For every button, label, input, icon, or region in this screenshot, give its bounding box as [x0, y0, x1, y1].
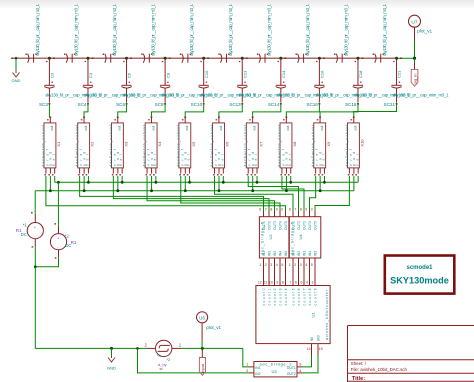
svg-text:7: 7 — [294, 208, 296, 212]
wire right pin X10 to rail A — [357, 176, 359, 182]
pin speckles cap 9 — [355, 61, 356, 62]
pin speckles cap 7 — [278, 61, 279, 62]
svg-text:SC3: SC3 — [39, 102, 48, 107]
svg-text:SKY130mode: SKY130mode — [390, 276, 449, 286]
svg-text:X8: X8 — [292, 141, 297, 147]
node top-left pin end — [11, 58, 13, 59]
node junction J5 — [202, 57, 205, 60]
capacitor shunt C8 — [160, 85, 170, 88]
source V1 (R1) — [34, 215, 36, 223]
capacitor C6 series — [218, 54, 229, 63]
svg-text:sky130_fd_pr__cap_mim_m3_1: sky130_fd_pr__cap_mim_m3_1 — [382, 3, 387, 56]
wire cap drop 9 — [357, 58, 359, 85]
svg-text:IN4: IN4 — [308, 251, 312, 256]
junction rail A col2 — [87, 181, 90, 184]
wire ctrl X8 to dac pin — [282, 176, 304, 211]
svg-text:out: out — [118, 126, 122, 131]
transistor-switch X2 dacSwitch_subckt box — [78, 123, 90, 168]
node junction J10 — [395, 57, 398, 60]
wire ctrl X2 to dac pin — [80, 176, 264, 211]
svg-text:C21: C21 — [397, 70, 402, 78]
ground GND bottom — [108, 356, 115, 363]
wire SC4 to switch X2 — [84, 104, 88, 117]
svg-text:*1: *1 — [23, 223, 28, 228]
junction rail A V2 tap — [57, 181, 60, 184]
wire cap drop 3 — [126, 58, 128, 85]
svg-text:6: 6 — [295, 281, 297, 285]
wire cap drop 8 — [318, 58, 320, 85]
wire SC8 to switch X4 — [151, 104, 165, 117]
svg-text:5: 5 — [300, 281, 302, 285]
wire U1 hi0 stub — [311, 344, 313, 356]
wire cap drop 10 — [396, 58, 398, 85]
wire V1 bottom — [34, 247, 36, 267]
svg-text:C10: C10 — [204, 70, 209, 78]
svg-text:X6: X6 — [225, 141, 230, 147]
wire right pin X5 to rail A — [189, 176, 191, 182]
svg-text:U4: U4 — [298, 234, 303, 240]
wire right pin X6 to rail A — [222, 176, 224, 182]
svg-text:input: input — [200, 363, 205, 373]
svg-text:OUT4: OUT4 — [279, 221, 283, 230]
svg-text:IN2: IN2 — [268, 251, 272, 256]
svg-text:3: 3 — [299, 363, 301, 367]
svg-text:IN5: IN5 — [284, 251, 288, 256]
pin speckles cap 1 — [46, 61, 47, 62]
transistor-switch X6 dacSwitch_subckt box — [213, 123, 225, 168]
svg-text:2: 2 — [145, 343, 148, 348]
svg-text:plot_v1: plot_v1 — [417, 29, 432, 34]
node scmode1 SKY130mode annotation — [385, 256, 455, 294]
svg-text:11: 11 — [264, 281, 268, 285]
svg-text:DC: DC — [65, 243, 71, 248]
svg-text:15: 15 — [319, 347, 323, 351]
svg-text:scmode1: scmode1 — [406, 265, 433, 271]
svg-text:2: 2 — [246, 369, 248, 373]
svg-text:9: 9 — [305, 208, 307, 212]
svg-text:9: 9 — [276, 281, 278, 285]
svg-text:sky130_fd_pr__cap_mim_m3_1: sky130_fd_pr__cap_mim_m3_1 — [112, 3, 117, 56]
junction bypass corner — [136, 347, 139, 350]
junction rail B col8 — [285, 189, 288, 192]
svg-text:hi0: hi0 — [310, 337, 314, 342]
svg-text:OUT1: OUT1 — [287, 366, 296, 370]
wire right pin X7 to rail A — [256, 176, 258, 182]
capacitor shunt C3 — [44, 85, 54, 88]
svg-text:sky130_fd_pr__cap_mim_m3_1: sky130_fd_pr__cap_mim_m3_1 — [228, 3, 233, 56]
svg-text:10: 10 — [279, 208, 283, 212]
pin speckles cap 2 — [85, 61, 86, 62]
svg-text:3: 3 — [270, 263, 272, 267]
wire ctrl X7 to dac pin — [248, 176, 298, 211]
pin 2 schmitt — [147, 347, 156, 349]
wire rail A to V2 — [57, 182, 59, 225]
wire SC18 to switch X9 — [320, 104, 358, 117]
transistor-switch X9 dacSwitch_subckt box — [314, 123, 326, 168]
wire top rail to plot node — [397, 57, 415, 59]
svg-text:out: out — [50, 126, 54, 131]
wire cap drop 4 — [164, 58, 166, 85]
wire cap drop 6 — [241, 58, 243, 85]
wire mid pin X9 to rail B — [319, 176, 321, 191]
source V2 (R1) — [58, 226, 60, 234]
svg-text:sig_in: sig_in — [412, 74, 417, 84]
ground GND top-left — [13, 71, 20, 78]
svg-text:-: - — [34, 234, 36, 238]
svg-text:1: 1 — [259, 263, 261, 267]
svg-text:SC13: SC13 — [229, 102, 241, 107]
node junction J2 — [86, 57, 89, 60]
transistor-switch X8 dacSwitch_subckt box — [280, 123, 292, 168]
junction rail A col6 — [222, 181, 225, 184]
svg-text:U7: U7 — [411, 19, 417, 25]
svg-text:X7: X7 — [258, 141, 263, 147]
svg-text:SC16: SC16 — [306, 102, 318, 107]
svg-text:14: 14 — [307, 347, 311, 351]
capacitor C7 series — [257, 54, 268, 63]
svg-text:SC14: SC14 — [268, 102, 280, 107]
svg-text:out: out — [219, 126, 223, 131]
junction rail B col9 — [319, 189, 322, 192]
wire mid pin X8 to rail B — [285, 176, 287, 191]
svg-text:OUT2: OUT2 — [268, 221, 272, 230]
wire clk0 to OUT2 — [302, 356, 318, 373]
wire SC6 to switch X3 — [118, 104, 127, 117]
svg-text:IN2: IN2 — [297, 251, 301, 256]
svg-text:out: out — [320, 126, 324, 131]
wire rail B to V1 — [34, 191, 36, 215]
wire cap drop 1 — [48, 58, 50, 85]
svg-text:OUT3: OUT3 — [273, 221, 277, 230]
svg-text:4: 4 — [276, 263, 278, 267]
wire mid pin X7 to rail B — [252, 176, 254, 191]
svg-text:IN1: IN1 — [292, 251, 296, 256]
wire rail A (to V2) — [55, 181, 358, 183]
svg-text:OUT1: OUT1 — [262, 221, 266, 230]
pin speckles cap 10 — [393, 61, 394, 62]
node junction J9 — [356, 57, 359, 60]
junction rail A col9 — [323, 181, 326, 184]
svg-text:+: + — [34, 225, 37, 229]
junction sources — [34, 265, 37, 268]
svg-text:U1: U1 — [311, 312, 316, 318]
wire top rail net — [12, 57, 397, 59]
svg-text:10: 10 — [309, 208, 313, 212]
transistor-switch X3 dacSwitch_subckt box — [111, 123, 123, 168]
svg-text:8: 8 — [270, 208, 272, 212]
svg-text:12: 12 — [258, 281, 262, 285]
wire gnd drop top-left — [15, 58, 17, 70]
wire right pin X8 to rail A — [290, 176, 292, 182]
svg-text:5: 5 — [311, 263, 313, 267]
svg-text:9: 9 — [276, 208, 278, 212]
svg-text:X1: X1 — [56, 141, 61, 147]
wire ctrl X1 to dac pin — [46, 176, 286, 211]
wire SC3 to switch X1 — [48, 104, 50, 117]
svg-text:SC4: SC4 — [78, 102, 87, 107]
wire hi0 to OUT1 — [302, 356, 312, 367]
svg-text:3: 3 — [311, 281, 313, 285]
svg-text:X2: X2 — [90, 141, 95, 147]
wire SC13 to switch X6 — [219, 104, 242, 117]
svg-text:R1: R1 — [71, 240, 77, 245]
svg-text:X4: X4 — [157, 141, 162, 147]
junction rail A col8 — [289, 181, 292, 184]
node sig_in hierarchical label — [411, 69, 418, 86]
svg-text:IN2: IN2 — [255, 372, 260, 376]
svg-text:sky130_fd_pr__cap_mim_m3_1: sky130_fd_pr__cap_mim_m3_1 — [151, 3, 156, 56]
capacitor shunt C6 — [121, 85, 131, 88]
wire U1 clk0 stub — [317, 344, 319, 356]
junction rail A col5 — [188, 181, 191, 184]
svg-text:C18: C18 — [358, 70, 363, 78]
svg-text:OUT5: OUT5 — [284, 221, 288, 230]
pin speckles cap 5 — [200, 61, 201, 62]
svg-text:sky130_fd_pr__cap_mim_m3_1: sky130_fd_pr__cap_mim_m3_1 — [189, 3, 194, 56]
junction rail B col2 — [83, 189, 86, 192]
wire mid pin X5 to rail B — [184, 176, 186, 191]
junction rail B col3 — [116, 189, 119, 192]
op-amp U6 plot_v1 — [197, 312, 208, 323]
svg-text:plot_v1: plot_v1 — [206, 325, 221, 330]
transistor U5 schmitt symbol — [156, 340, 172, 356]
svg-text:C3: C3 — [50, 72, 55, 78]
svg-text:6: 6 — [289, 208, 291, 212]
svg-text:2: 2 — [294, 263, 296, 267]
svg-text:out: out — [253, 126, 257, 131]
wire ctrl X9 to dac pin — [310, 176, 316, 211]
op-amp U2 dac_bridge_5 box — [259, 217, 289, 258]
svg-text:sky130_fd_pr__cap_mim_m3_1: sky130_fd_pr__cap_mim_m3_1 — [35, 3, 40, 56]
capacitor C3 series — [103, 54, 114, 63]
svg-text:4: 4 — [299, 369, 301, 373]
svg-text:*2: *2 — [65, 234, 70, 239]
wire right pin X2 to rail A — [87, 176, 89, 182]
svg-text:6: 6 — [259, 208, 261, 212]
svg-text:C14: C14 — [281, 70, 286, 78]
wire ctrl X6 to dac pin — [215, 176, 294, 211]
capacitor shunt C4 — [83, 85, 93, 88]
svg-text:GND: GND — [12, 78, 21, 83]
junction rail B col5 — [184, 189, 187, 192]
wire input net horizontal — [35, 347, 147, 349]
svg-text:X9: X9 — [326, 141, 331, 147]
svg-text:8: 8 — [282, 281, 284, 285]
pin speckles cap 8 — [316, 61, 317, 62]
svg-text:sky130_fd_pr__cap_mim_m3_1: sky130_fd_pr__cap_mim_m3_1 — [393, 93, 450, 98]
node junction J6 — [241, 57, 244, 60]
svg-text:7: 7 — [289, 281, 291, 285]
svg-text:GND: GND — [107, 365, 116, 370]
transistor-switch X5 dacSwitch_subckt box — [179, 123, 191, 168]
svg-text:IN5: IN5 — [314, 251, 318, 256]
svg-text:3: 3 — [300, 263, 302, 267]
transistor-switch X10 dacSwitch_subckt box — [347, 123, 359, 168]
node junction J8 — [318, 57, 321, 60]
svg-text:+: + — [57, 237, 60, 241]
svg-text:SC18: SC18 — [345, 102, 357, 107]
capacitor shunt C18 — [353, 85, 363, 88]
svg-text:sky130_fd_pr__cap_mim_m3_1: sky130_fd_pr__cap_mim_m3_1 — [343, 3, 348, 56]
wire bypass down — [138, 348, 250, 373]
transistor-switch X4 dacSwitch_subckt box — [145, 123, 157, 168]
svg-text:sky130_fd_pr__cap_mim_m3_1: sky130_fd_pr__cap_mim_m3_1 — [305, 3, 310, 56]
wire right pin X4 to rail A — [155, 176, 157, 182]
svg-text:out: out — [286, 126, 290, 131]
pin speckles cap 6 — [239, 61, 240, 62]
svg-text:IN1: IN1 — [255, 366, 260, 370]
svg-text:*2: *2 — [166, 357, 171, 362]
wire right pin X9 to rail A — [323, 176, 325, 182]
junction rail B col1 — [49, 189, 52, 192]
junction rail B col7 — [251, 189, 254, 192]
wire cap drop 5 — [203, 58, 205, 85]
wire to IN1 — [243, 348, 249, 367]
svg-text:10: 10 — [269, 281, 273, 285]
capacitor C1 series — [26, 54, 37, 63]
wire mid pin X6 to rail B — [218, 176, 220, 191]
capacitor C4 series — [141, 54, 152, 63]
wire ctrl X3 to dac pin — [113, 176, 269, 211]
wire SC21 to switch X10 — [354, 104, 397, 117]
capacitor C5 series — [180, 54, 191, 63]
svg-text:DC: DC — [21, 232, 27, 237]
wire ctrl X5 to dac pin — [181, 176, 280, 211]
svg-text:sky130_fd_pr__cap_mim_m3_1: sky130_fd_pr__cap_mim_m3_1 — [73, 3, 78, 56]
capacitor C8 series — [295, 54, 306, 63]
wire U7 pin — [414, 27, 416, 40]
svg-text:SC21: SC21 — [384, 102, 396, 107]
junction plot/input tap — [201, 347, 204, 350]
wire mid pin X4 to rail B — [151, 176, 153, 191]
svg-text:X5: X5 — [191, 141, 196, 147]
svg-text:4: 4 — [306, 281, 308, 285]
op-amp U4 dac_bridge_5 box — [289, 217, 321, 258]
svg-text:OUT1: OUT1 — [292, 221, 296, 230]
node junction J4 — [164, 57, 167, 60]
svg-text:File: avishek_10bit_DAC.sch: File: avishek_10bit_DAC.sch — [351, 367, 408, 372]
wire mid pin X3 to rail B — [117, 176, 119, 191]
transistor-switch X7 dacSwitch_subckt box — [246, 123, 258, 168]
svg-text:U3: U3 — [272, 369, 278, 374]
svg-text:U6: U6 — [199, 315, 205, 320]
svg-text:5: 5 — [281, 263, 283, 267]
svg-text:OUT2: OUT2 — [297, 221, 301, 230]
junction rail A col3 — [121, 181, 124, 184]
svg-text:C6: C6 — [127, 72, 132, 78]
op-amp U7 plot_v1 — [409, 15, 421, 27]
node junction J1 — [48, 57, 51, 60]
svg-text:out: out — [84, 126, 88, 131]
svg-text:out: out — [354, 126, 358, 131]
op-amp U3 adc_bridge_2 box — [254, 362, 297, 377]
junction rail B col6 — [218, 189, 221, 192]
svg-text:OUT5: OUT5 — [314, 221, 318, 230]
svg-text:2: 2 — [265, 263, 267, 267]
svg-text:IN3: IN3 — [273, 251, 277, 256]
capacitor shunt C13 — [237, 85, 247, 88]
capacitor shunt C10 — [198, 85, 208, 88]
op-amp U1 avishek_10bitcounter box — [256, 286, 330, 344]
svg-text:X10: X10 — [359, 139, 364, 147]
wire SC14 to switch X7 — [253, 104, 281, 117]
svg-text:U2: U2 — [268, 234, 273, 240]
junction top-left gnd — [15, 57, 17, 59]
svg-text:out: out — [151, 126, 155, 131]
svg-text:Sheet: /: Sheet: / — [351, 361, 367, 366]
svg-text:out: out — [185, 126, 189, 131]
svg-text:1: 1 — [179, 343, 182, 348]
capacitor C2 series — [64, 54, 75, 63]
junction rail A col7 — [256, 181, 259, 184]
svg-text:C13: C13 — [242, 70, 247, 78]
node input hierarchical label — [201, 348, 203, 357]
svg-text:IN4: IN4 — [279, 251, 283, 256]
wire mid pin X2 to rail B — [83, 176, 85, 191]
pin speckles cap 3 — [123, 61, 124, 62]
wire cap drop 7 — [280, 58, 282, 85]
wire right pin X3 to rail A — [121, 176, 123, 182]
svg-text:7: 7 — [265, 208, 267, 212]
wire ctrl X4 to dac pin — [147, 176, 274, 211]
svg-text:avishek_10bitcounter: avishek_10bitcounter — [325, 289, 329, 340]
wire rail B (to V1) — [35, 190, 354, 192]
wire cap drop 2 — [87, 58, 89, 85]
pin speckles cap 4 — [162, 61, 163, 62]
svg-text:X3: X3 — [123, 141, 128, 147]
svg-text:IN1: IN1 — [262, 251, 266, 256]
capacitor shunt C16 — [314, 85, 324, 88]
svg-text:IN3: IN3 — [303, 251, 307, 256]
wire mid pin X1 to rail B — [49, 176, 51, 191]
node junction J3 — [125, 57, 128, 60]
wire ctrl X10 to dac pin — [315, 176, 349, 211]
svg-text:8: 8 — [300, 208, 302, 212]
wire gnd stub bottom — [111, 348, 113, 355]
capacitor shunt C14 — [276, 85, 286, 88]
wire sig_in drop — [414, 58, 416, 62]
svg-text:-: - — [57, 246, 59, 250]
svg-text:sky130_fd_pr__cap_mim_m3_1: sky130_fd_pr__cap_mim_m3_1 — [266, 3, 271, 56]
wire schmitt out — [181, 347, 243, 349]
svg-text:C16: C16 — [320, 70, 325, 78]
wire V2 bottom — [35, 258, 58, 267]
transistor-switch X1 dacSwitch_subckt box — [44, 123, 56, 168]
wire right pin X1 to rail A — [54, 176, 56, 182]
svg-text:OUT2: OUT2 — [287, 372, 296, 376]
svg-text:4: 4 — [305, 263, 307, 267]
wire title block frame — [347, 326, 349, 382]
capacitor shunt C21 — [391, 85, 401, 88]
wire mid pin X10 to rail B — [353, 176, 355, 191]
wire SC16 to switch X8 — [286, 104, 319, 117]
svg-text:OUT3: OUT3 — [303, 221, 307, 230]
svg-text:C8: C8 — [165, 72, 170, 78]
svg-text:C4: C4 — [88, 72, 93, 78]
junction rail A col4 — [154, 181, 157, 184]
junction rail B col4 — [150, 189, 153, 192]
capacitor C10 series — [373, 54, 384, 63]
svg-text:OUT4: OUT4 — [308, 221, 312, 230]
svg-text:SC8: SC8 — [155, 102, 164, 107]
svg-text:clk0: clk0 — [317, 335, 321, 341]
junction sig_in node — [413, 57, 416, 60]
svg-text:1: 1 — [246, 363, 248, 367]
svg-text:SC10: SC10 — [191, 102, 203, 107]
junction gnd tap bottom — [110, 347, 113, 350]
wire U6 pin — [201, 323, 203, 341]
pin 1 schmitt — [172, 347, 181, 349]
